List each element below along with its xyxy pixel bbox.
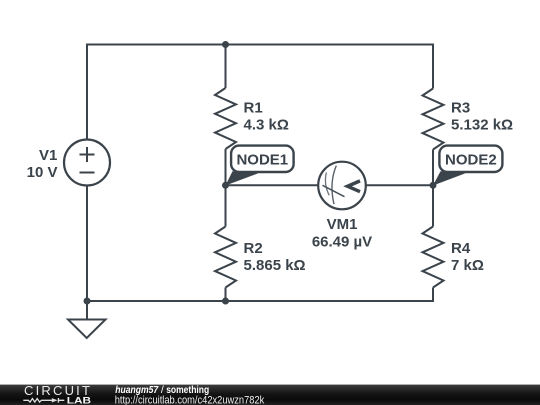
wire R3 bottom lead xyxy=(432,150,434,186)
NODE2 pointer wedge xyxy=(433,171,466,185)
node junction bottom R2 xyxy=(222,298,229,305)
voltage source V1 xyxy=(64,140,110,186)
svg-text:VM1: VM1 xyxy=(327,216,358,233)
svg-text:V1: V1 xyxy=(39,147,57,164)
svg-text:66.49 µV: 66.49 µV xyxy=(312,233,372,250)
ground xyxy=(68,301,106,338)
wire bottom rail xyxy=(87,186,433,301)
svg-text:5.865 kΩ: 5.865 kΩ xyxy=(244,257,306,274)
NODE1 pointer wedge xyxy=(226,171,259,185)
wire R2 bottom lead xyxy=(225,288,227,302)
svg-text:R2: R2 xyxy=(244,240,263,257)
node junction top xyxy=(222,41,229,48)
node NODE2 junction xyxy=(430,182,437,189)
svg-text:http://circuitlab.com/c42x2uwz: http://circuitlab.com/c42x2uwzn782k xyxy=(115,395,265,405)
wire R2 top lead xyxy=(225,185,227,226)
wire R1 bottom lead xyxy=(225,149,227,185)
node label NODE1 xyxy=(231,146,294,172)
svg-text:10 V: 10 V xyxy=(27,164,58,181)
svg-text:NODE1: NODE1 xyxy=(236,151,288,168)
resistor R1 xyxy=(215,88,236,149)
resistor R2 xyxy=(215,227,236,288)
wire top rail xyxy=(87,45,433,141)
svg-text:5.132 kΩ: 5.132 kΩ xyxy=(451,117,513,134)
node NODE1 junction xyxy=(222,182,229,189)
wire R3 lead xyxy=(432,87,434,90)
voltmeter VM1 xyxy=(318,162,366,210)
logo diode triangle xyxy=(52,398,58,402)
footer user/title line xyxy=(115,384,209,396)
wire R4 top lead xyxy=(432,185,434,226)
svg-text:R1: R1 xyxy=(244,100,263,117)
svg-text:LAB: LAB xyxy=(67,395,91,405)
node label NODE2 xyxy=(439,146,502,172)
resistor R4 xyxy=(423,227,444,288)
svg-text:NODE2: NODE2 xyxy=(445,151,497,168)
resistor R3 xyxy=(423,89,444,150)
svg-text:R4: R4 xyxy=(451,240,471,257)
logo resistor-diode line xyxy=(23,398,64,403)
svg-text:4.3 kΩ: 4.3 kΩ xyxy=(244,117,289,134)
footer bar xyxy=(0,385,540,405)
svg-text:7 kΩ: 7 kΩ xyxy=(451,257,484,274)
svg-text:R3: R3 xyxy=(451,100,470,117)
wire R1 top lead xyxy=(225,45,227,89)
wire middle right (VM1 to NODE2) xyxy=(366,184,433,186)
wire middle left (NODE1 to VM1) xyxy=(226,184,319,186)
node junction bottom left xyxy=(84,298,91,305)
